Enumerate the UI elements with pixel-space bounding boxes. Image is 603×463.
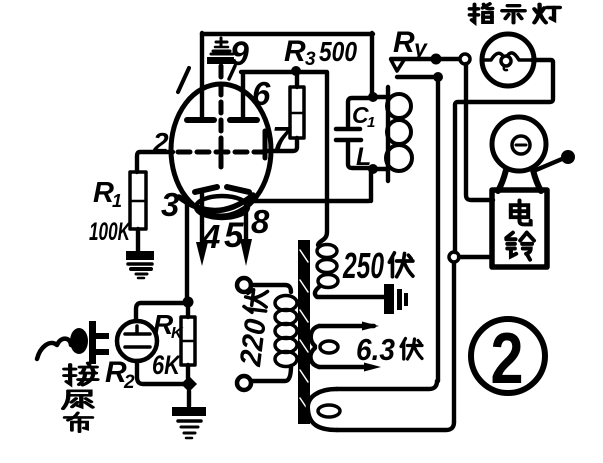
transformer bell winding loop: [318, 405, 340, 417]
plug cord: [37, 339, 71, 359]
relay coil L links: [377, 95, 386, 99]
indicator lamp circle: [482, 34, 534, 86]
wire RK bottom: [186, 365, 190, 378]
lamp filament: [483, 53, 532, 70]
wire bell column up: [452, 262, 456, 422]
wire R2 bottom: [137, 361, 184, 384]
capacitor C1 top lead: [348, 98, 369, 126]
wire bell lower lead: [459, 255, 492, 259]
label 指示灯: [470, 4, 493, 22]
svg-text:100K: 100K: [89, 218, 131, 246]
bell box: [492, 190, 547, 267]
tube base oval: [196, 196, 248, 218]
tube plate bar right (pin 6): [230, 117, 257, 123]
sensor R2 plates: [125, 326, 150, 347]
svg-text:R: R: [284, 35, 306, 68]
wire pin5 with arrow: [244, 201, 248, 240]
pin label 1: [178, 68, 189, 92]
wire pin6 lead up: [241, 74, 245, 120]
node C1/L bottom: [368, 164, 378, 174]
sensor R2 circle: [117, 321, 157, 361]
node C1/L top: [368, 92, 378, 102]
svg-text:250: 250: [342, 245, 384, 286]
wire bell winding bottom to bell column: [337, 422, 454, 430]
label 电铃: [511, 200, 531, 224]
svg-text:6.3: 6.3: [356, 332, 395, 367]
label R2: [105, 356, 135, 393]
wire pin8 cathode to C1/L bottom riser: [251, 199, 369, 203]
label 220伏 (rotated): [234, 288, 276, 368]
svg-text:5: 5: [224, 216, 244, 255]
resistor RK top lead: [186, 307, 190, 317]
tube plate bar left (pin 1): [187, 117, 214, 123]
transformer 6.3V top wire with arrow: [319, 324, 374, 328]
wire pin9 dashed (grid 3): [219, 66, 224, 168]
svg-text:K: K: [171, 325, 184, 342]
wire pin7 to R3 bottom: [267, 138, 297, 151]
resistor R3: [290, 87, 304, 138]
node RK bottom diamond junction: [181, 376, 197, 392]
relay lower contact wire: [397, 75, 433, 79]
svg-text:L: L: [356, 143, 371, 171]
transformer primary loops: [275, 296, 297, 367]
capacitor C1 plates: [336, 127, 360, 132]
node bell ring junction: [449, 252, 459, 262]
transformer primary ring top: [237, 278, 251, 292]
svg-text:4: 4: [201, 218, 220, 255]
svg-text:1: 1: [367, 114, 375, 131]
wire riser to C1/L bottom node: [369, 172, 373, 201]
relay coil L loops: [386, 94, 412, 171]
svg-text:2: 2: [123, 372, 135, 393]
svg-text:R: R: [393, 26, 415, 59]
node ring under lamp line: [460, 54, 470, 64]
plug prong lower: [96, 349, 109, 355]
svg-text:6K: 6K: [152, 350, 182, 380]
wire ring down to bell upper lead: [466, 64, 493, 200]
transformer 6.3V bottom wire with arrow: [319, 365, 372, 369]
relay contact arrow: [391, 60, 404, 71]
resistor RK: [181, 317, 195, 365]
wire junction to R2 top: [136, 303, 186, 320]
node pin3/R2/RK junction: [183, 297, 194, 308]
svg-text:8: 8: [251, 203, 270, 240]
wire bell winding top to relay column: [337, 381, 437, 389]
svg-text:6: 6: [252, 75, 271, 112]
bell inner circle: [512, 136, 530, 154]
svg-text:R: R: [93, 177, 114, 209]
label 接尿布: [64, 363, 97, 385]
relay coil L core line: [386, 87, 390, 181]
label C1: [352, 102, 375, 131]
svg-text:7: 7: [272, 120, 292, 157]
tube heater dash right: [227, 187, 249, 192]
svg-text:y: y: [413, 35, 428, 61]
wire pin1 lead from top rail into tube: [200, 33, 204, 117]
wire lamp right loop down to bell column: [455, 60, 553, 252]
transformer 250V winding loops: [317, 245, 338, 288]
pin9 shield symbol: [207, 38, 234, 64]
wire relay column (Ry lower contact down): [436, 81, 440, 381]
svg-text:9: 9: [230, 35, 249, 73]
tube V envelope: [171, 84, 271, 216]
bell gong circle: [492, 117, 546, 171]
wire R1 to ground: [136, 229, 140, 251]
node R3 top junction: [291, 66, 301, 76]
label Ry: [393, 26, 428, 61]
label R3 500: [284, 35, 357, 70]
transformer bell winding U loop: [308, 389, 337, 430]
ground (250V): [384, 284, 408, 314]
wire pin4 with arrow: [200, 193, 204, 243]
wire pin3 down: [185, 199, 189, 299]
pin9 leader slash: [229, 66, 235, 79]
svg-text:3: 3: [305, 49, 316, 70]
svg-text:2: 2: [152, 127, 169, 158]
plug bar: [89, 321, 96, 364]
svg-text:1: 1: [112, 191, 122, 211]
svg-text:2: 2: [491, 319, 524, 399]
bell neck: [498, 170, 506, 191]
node Ry dot: [431, 54, 442, 65]
svg-text:500: 500: [319, 36, 357, 67]
wire grid dashed (pin 2 grid): [178, 150, 263, 155]
capacitor C1 bottom lead: [348, 142, 369, 168]
wire plate-supply column down: [318, 73, 327, 245]
wire rail right drop to C1/L top node: [370, 33, 374, 95]
svg-text:220: 220: [234, 317, 273, 369]
transformer core: [298, 240, 310, 424]
wire primary bottom: [251, 366, 291, 381]
tube cathode arc: [179, 195, 253, 211]
resistor R1: [130, 172, 146, 229]
label RK: [153, 309, 184, 342]
label R1: [93, 177, 122, 211]
ground (R1): [126, 251, 154, 278]
wire R3 top: [295, 72, 299, 87]
figure circle 2: [471, 319, 545, 393]
tube grid-2 bar (pin 7): [263, 131, 268, 158]
wire primary top: [251, 285, 291, 292]
wire 250V out: [315, 287, 384, 297]
relay contact Ry main line: [391, 57, 460, 61]
ground (RK): [172, 407, 206, 438]
transformer 6.3V left loop: [311, 326, 319, 346]
plug body: [70, 328, 88, 354]
tube heater dash left: [195, 187, 217, 192]
wire to ground: [187, 391, 191, 406]
bell striker: [536, 159, 562, 170]
transformer primary ring bottom: [237, 376, 251, 390]
wire pin2 lead left: [137, 152, 173, 172]
svg-text:3: 3: [161, 186, 179, 223]
plug prong upper: [96, 333, 109, 339]
wire top rail (plate of pin1 to C1/L top): [202, 32, 373, 36]
node lower contact dot: [433, 72, 443, 82]
wire pin6 rail to R3 top and down-column: [241, 70, 327, 74]
